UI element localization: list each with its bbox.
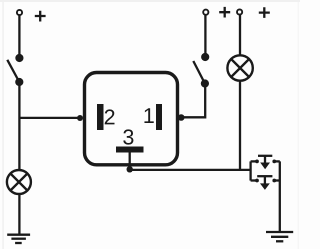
P1 lower arrow stem xyxy=(264,176,266,184)
label 2 (terminal 2) xyxy=(105,109,115,124)
terminal plate 1 xyxy=(156,104,162,130)
ground G1 (left) xyxy=(7,234,30,236)
P1 upper arrow stem xyxy=(264,156,266,163)
lamp L1 (left indicator lamp) xyxy=(7,170,31,194)
wire: switch S2 to right terminal xyxy=(204,15,206,57)
flasher unit U1 (rounded box) xyxy=(85,73,178,165)
terminal B2 (open circle) xyxy=(203,10,208,15)
P1 lower right contact dot xyxy=(272,179,276,183)
switch S1 lower contact dot xyxy=(15,78,23,86)
wire: lamp L1 to ground xyxy=(18,195,20,234)
plus sign at terminal B2 xyxy=(219,7,230,18)
P1 lower arrowhead xyxy=(260,183,270,190)
frame left edge xyxy=(2,2,3,249)
wire: lamp L2 down to terminal 3 run xyxy=(239,81,241,170)
frame right edge xyxy=(298,2,299,249)
wire: left terminal to switch S1 xyxy=(18,15,20,56)
wire: terminal B3 down to lamp L2 xyxy=(239,15,241,55)
switch S1 arm xyxy=(7,60,19,82)
wire: branch to flasher terminal 2 xyxy=(19,117,79,119)
label 3 (terminal 3) xyxy=(123,129,133,144)
ground G2 (right) xyxy=(266,231,293,233)
pilot indicator P1 left bracket xyxy=(249,161,251,180)
switch S2 lower contact dot xyxy=(201,79,209,87)
node junction below terminal 3 xyxy=(127,166,133,172)
P1 lower left contact dot xyxy=(255,179,259,183)
P1 upper plate bar xyxy=(258,155,272,157)
P1 upper right stub xyxy=(273,160,280,162)
switch S2 arm xyxy=(193,61,205,84)
wire: pilot device to ground G2 xyxy=(279,161,281,231)
P1 upper right contact dot xyxy=(272,160,276,164)
terminal B3 (open circle) xyxy=(237,9,242,14)
terminal plate 2 xyxy=(97,104,104,130)
wire: plate 3 stem through case xyxy=(129,153,131,169)
P1 lower plate bar xyxy=(257,175,272,177)
P1 upper left stub xyxy=(251,160,259,162)
terminal B1 (left supply, open circle) xyxy=(17,10,22,15)
switch S2 upper contact dot xyxy=(201,53,209,61)
node at flasher left terminal xyxy=(77,115,83,121)
P1 upper left contact dot xyxy=(255,160,259,164)
wire: terminal 3 run to pilot device xyxy=(130,169,250,171)
frame top edge xyxy=(0,0,300,2)
lamp L2 (right indicator lamp) xyxy=(227,55,252,80)
wire: terminal 1 to switch S2 xyxy=(181,84,205,117)
wire: switch S1 down to lamp L1 xyxy=(18,82,20,169)
terminal plate 3 xyxy=(116,147,144,153)
node at flasher right terminal xyxy=(178,114,185,121)
P1 lower right stub xyxy=(273,179,280,181)
label 1 (terminal 1) xyxy=(144,108,153,123)
P1 lower left stub xyxy=(251,179,259,181)
switch S1 upper contact dot xyxy=(15,54,23,62)
plus sign left supply xyxy=(35,11,46,22)
plus sign at terminal B3 xyxy=(259,7,270,18)
P1 upper arrowhead xyxy=(260,163,270,170)
